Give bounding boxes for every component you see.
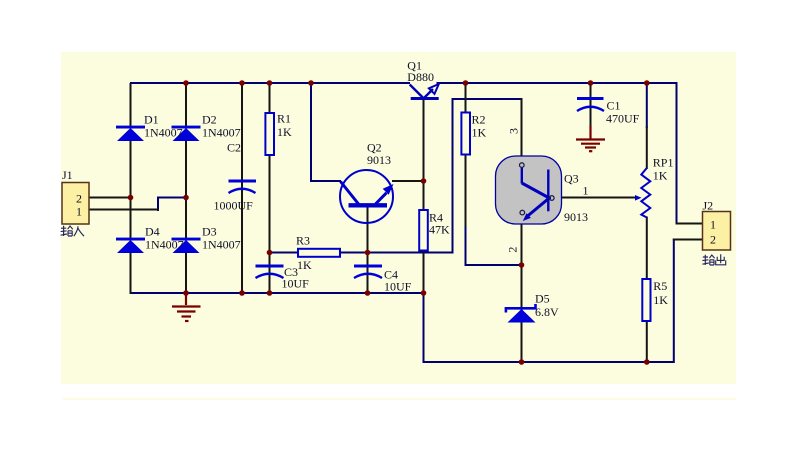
- svg-text:9013: 9013: [564, 210, 588, 224]
- svg-text:1N4007: 1N4007: [202, 126, 241, 140]
- svg-text:1: 1: [76, 205, 82, 219]
- svg-text:D2: D2: [202, 113, 217, 127]
- svg-text:D1: D1: [144, 113, 159, 127]
- svg-text:Q3: Q3: [564, 172, 579, 186]
- svg-text:2: 2: [76, 192, 82, 206]
- svg-text:2: 2: [505, 247, 519, 253]
- svg-text:1K: 1K: [472, 126, 487, 140]
- svg-text:R2: R2: [472, 113, 486, 127]
- svg-text:47K: 47K: [429, 223, 450, 237]
- svg-text:1N4007: 1N4007: [202, 238, 241, 252]
- svg-text:470UF: 470UF: [606, 112, 640, 126]
- svg-text:1N4007: 1N4007: [145, 238, 184, 252]
- svg-text:10UF: 10UF: [282, 277, 310, 291]
- svg-text:J2: J2: [703, 199, 714, 213]
- svg-text:D880: D880: [407, 70, 434, 84]
- svg-text:RP1: RP1: [653, 156, 674, 170]
- svg-text:1K: 1K: [277, 125, 292, 139]
- svg-text:R5: R5: [653, 279, 667, 293]
- svg-text:1K: 1K: [297, 258, 312, 272]
- svg-text:1000UF: 1000UF: [214, 199, 254, 213]
- svg-text:C2: C2: [227, 141, 241, 155]
- svg-text:C1: C1: [607, 99, 621, 113]
- svg-text:2: 2: [710, 233, 716, 247]
- svg-text:1: 1: [583, 184, 589, 198]
- svg-text:3: 3: [506, 128, 520, 134]
- svg-text:9013: 9013: [367, 153, 391, 167]
- svg-text:1K: 1K: [653, 293, 668, 307]
- svg-text:D3: D3: [202, 225, 217, 239]
- svg-text:1N4007: 1N4007: [144, 126, 183, 140]
- svg-text:R1: R1: [277, 112, 291, 126]
- svg-text:1: 1: [710, 218, 716, 232]
- svg-text:1K: 1K: [653, 169, 668, 183]
- svg-text:6.8V: 6.8V: [535, 305, 559, 319]
- svg-text:D4: D4: [145, 225, 160, 239]
- svg-text:D5: D5: [535, 292, 550, 306]
- svg-text:R3: R3: [296, 234, 310, 248]
- svg-text:J1: J1: [62, 168, 73, 182]
- svg-text:10UF: 10UF: [384, 280, 412, 294]
